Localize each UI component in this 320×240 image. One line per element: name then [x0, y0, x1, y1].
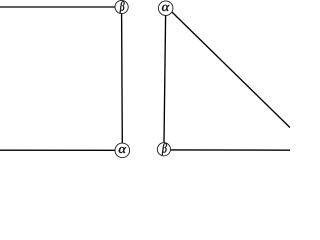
wire: left figure bottom edge	[0, 149, 115, 151]
node A2: circled alpha, right figure top	[158, 1, 173, 16]
wire: right figure bottom edge	[171, 149, 291, 151]
node A1: circled alpha, left figure bottom-right	[115, 143, 130, 158]
wire: right figure left vertical edge	[164, 15, 166, 142]
wire: left figure top edge	[0, 6, 115, 8]
wire: right figure diagonal edge	[172, 12, 290, 128]
node B1: circled beta, left figure top-right	[115, 0, 128, 13]
node B2: circled beta, right figure bottom	[157, 143, 170, 156]
wire: left figure right vertical edge	[121, 14, 124, 144]
